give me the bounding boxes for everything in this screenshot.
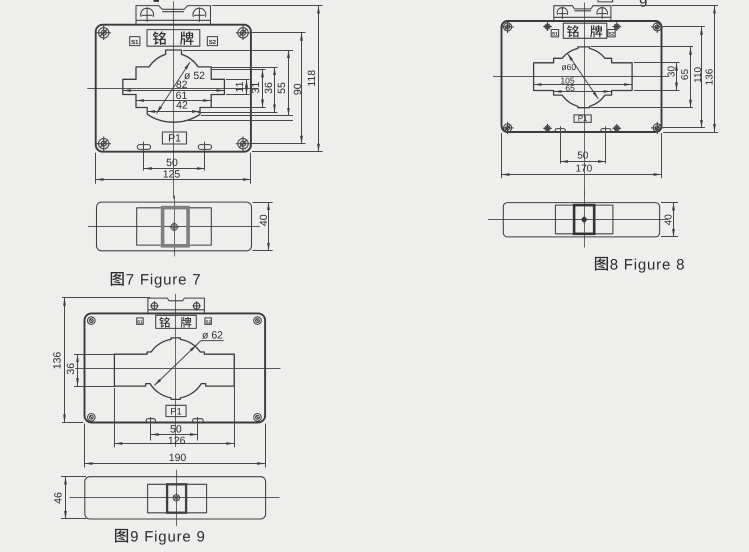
bracket screw left fig9 — [150, 301, 158, 310]
small screw top-right fig8 — [612, 22, 621, 31]
ext 40 bottom fig7 — [253, 250, 273, 252]
side view core fig9 — [167, 484, 186, 512]
side view outer body fig9 — [85, 477, 266, 519]
ext 110 bottom fig8 — [663, 127, 705, 129]
cut-off fragment above figure 8 — [598, 0, 613, 2]
nameplate text pai fig8 — [590, 25, 602, 37]
small screw bottom-left fig8 — [543, 124, 552, 133]
ext 170 left fig8 — [501, 133, 503, 178]
ext 65v bottom fig8 — [591, 107, 694, 109]
svg-text:190: 190 — [169, 452, 187, 464]
ext 136 top fig9 — [62, 297, 150, 299]
busbar window fig9 — [114, 338, 234, 400]
dimension 30 fig8 — [666, 63, 677, 91]
dimension 42 fig7 — [147, 100, 200, 112]
ext 65v top fig8 — [591, 46, 694, 48]
vertical centerline fig7 front — [173, 1, 175, 199]
caption figure 7 — [111, 272, 202, 289]
svg-text:S2: S2 — [209, 39, 217, 46]
svg-text:36: 36 — [263, 82, 275, 94]
ext 36 top fig9 — [74, 354, 116, 356]
caption figure 9 — [115, 528, 206, 545]
svg-text:9 Figure 9: 9 Figure 9 — [130, 528, 206, 545]
mounting bracket fig9 — [148, 298, 205, 313]
side view center screw fig7 — [170, 223, 179, 232]
mounting slot right fig8 — [601, 129, 611, 133]
horizontal centerline fig7 side — [88, 226, 260, 228]
ext 190 left fig9 — [84, 424, 86, 468]
terminal S1 fig9 — [137, 318, 144, 325]
dimension 40 fig7 — [258, 202, 270, 251]
ext from window bottom fig7 — [184, 120, 293, 122]
svg-text:31: 31 — [250, 82, 262, 94]
dimension 170 fig8 — [502, 164, 662, 175]
ext 126 left fig9 — [114, 388, 116, 447]
ext 30 top fig8 — [634, 62, 680, 64]
svg-text:P1: P1 — [168, 133, 181, 145]
bracket screw left fig8 — [557, 7, 567, 19]
nameplate box fig8 — [563, 23, 607, 38]
mounting bracket fig8 — [554, 6, 611, 21]
dimension 190 fig9 — [85, 452, 266, 464]
horizontal centerline fig8 front — [493, 76, 669, 78]
dimension 11 fig7 — [234, 79, 247, 94]
side view bracket fig8 — [555, 205, 613, 234]
corner screw top-right fig9 — [254, 317, 262, 325]
svg-text:S1: S1 — [552, 32, 558, 38]
ext 126 right fig9 — [234, 355, 236, 448]
slot centerline right fig7 — [204, 142, 206, 171]
dimension 36 fig7 — [263, 67, 275, 112]
dimension 61 fig7 — [136, 90, 211, 102]
svg-text:55: 55 — [276, 82, 288, 94]
svg-text:170: 170 — [576, 164, 593, 175]
svg-text:40: 40 — [664, 214, 675, 226]
nameplate text pai fig7 — [180, 31, 193, 45]
svg-text:11: 11 — [234, 81, 246, 92]
ext 55 bottom fig7 — [201, 115, 293, 117]
stepped busbar window fig8 — [534, 47, 633, 108]
dimension 110 fig8 — [693, 27, 704, 128]
svg-text:30: 30 — [666, 66, 677, 78]
dimension 105 fig8 — [534, 76, 633, 86]
dimension 136 fig9 — [52, 298, 65, 423]
dimension 50 fig9 — [151, 424, 198, 436]
corner mounting hole top-left fig8 — [502, 21, 514, 33]
horizontal centerline fig9 side — [70, 497, 280, 499]
horizontal centerline fig8 side — [488, 219, 668, 221]
dimension 125 fig7 — [96, 169, 251, 181]
ext 110 top fig8 — [663, 26, 705, 28]
slot centerline right fig9 — [197, 417, 199, 441]
svg-text:7 Figure 7: 7 Figure 7 — [126, 272, 202, 289]
svg-text:ø60: ø60 — [561, 62, 576, 72]
ext 46 top fig9 — [61, 476, 86, 478]
side view outer body fig7 — [97, 202, 252, 251]
ext 136 bottom fig9 — [62, 422, 83, 424]
side view center screw fig8 — [580, 216, 588, 224]
side view bracket fig7 — [137, 208, 212, 245]
mounting bracket fig7 — [136, 6, 211, 25]
svg-text:65: 65 — [680, 69, 691, 81]
side view outer body fig8 — [503, 203, 659, 237]
ext 136 bottom fig8 — [663, 132, 718, 134]
ext 190 right fig9 — [265, 424, 267, 468]
nameplate text ming fig7 — [153, 31, 166, 44]
bracket screw right fig7 — [193, 7, 206, 22]
svg-text:S2: S2 — [608, 32, 614, 38]
svg-text:P1: P1 — [578, 114, 588, 123]
dimension 55 fig7 — [276, 50, 288, 116]
P1 label fig8 — [574, 114, 591, 123]
ext 30 bottom fig8 — [634, 90, 680, 92]
side view center screw fig9 — [173, 495, 179, 501]
transformer body fig9 — [85, 313, 266, 422]
ext 36 bottom fig9 — [74, 386, 116, 388]
svg-text:90: 90 — [292, 83, 304, 95]
svg-text:ø 52: ø 52 — [184, 70, 205, 82]
dimension 118 fig7 — [306, 6, 318, 152]
terminal S2 fig8 — [608, 30, 615, 38]
ext 11 top fig7 — [226, 79, 250, 81]
ext 40 top fig8 — [661, 202, 678, 204]
svg-text:118: 118 — [306, 70, 318, 87]
svg-text:40: 40 — [258, 214, 270, 226]
dimension 31 fig7 — [250, 69, 262, 107]
ext 40 bottom fig8 — [661, 236, 678, 238]
side view bracket fig9 — [148, 484, 207, 513]
svg-text:S2: S2 — [205, 319, 211, 324]
slot centerline left fig9 — [150, 417, 152, 441]
mounting slot left fig7 — [137, 145, 150, 150]
svg-text:S1: S1 — [131, 39, 139, 46]
ext 118 bottom fig7 — [252, 151, 323, 153]
terminal S2 fig9 — [205, 318, 212, 325]
transformer body fig8 — [502, 21, 662, 132]
nameplate text pai fig9 — [181, 317, 192, 328]
svg-text:110: 110 — [693, 66, 704, 82]
svg-text:P1: P1 — [170, 406, 182, 417]
svg-text:125: 125 — [163, 169, 181, 181]
dimension 65 fig8 — [554, 83, 612, 93]
bracket screw right fig9 — [192, 301, 200, 310]
ext 90 top fig7 — [250, 32, 306, 34]
svg-text:42: 42 — [176, 100, 188, 112]
corner screw top-left fig9 — [88, 317, 96, 325]
svg-text:136: 136 — [52, 352, 64, 370]
svg-text:50: 50 — [577, 151, 589, 162]
corner mounting hole bottom-left fig7 — [97, 137, 111, 151]
transformer body fig7 — [96, 25, 251, 152]
svg-text:126: 126 — [168, 435, 186, 447]
svg-text:36: 36 — [65, 363, 77, 375]
caption figure 8 — [595, 256, 685, 273]
small screw bottom-right fig8 — [612, 124, 621, 133]
diameter 52 leader fig7 — [157, 62, 206, 114]
slot centerline left fig8 — [560, 126, 562, 163]
vertical centerline fig8 side — [584, 190, 586, 248]
svg-text:136: 136 — [705, 68, 716, 85]
corner mounting hole top-right fig8 — [651, 21, 663, 33]
terminal S1 fig8 — [551, 30, 558, 38]
ext 36 bottom fig7 — [198, 112, 278, 114]
svg-text:S1: S1 — [137, 319, 143, 324]
dimension 136 fig8 — [705, 6, 716, 132]
corner screw bottom-left fig9 — [88, 414, 96, 422]
vertical centerline fig9 front — [175, 294, 177, 447]
corner mounting hole top-left fig7 — [97, 26, 111, 40]
svg-text:50: 50 — [170, 424, 182, 436]
P1 label fig7 — [162, 132, 186, 145]
corner mounting hole bottom-right fig8 — [651, 122, 663, 134]
horizontal centerline fig7 front — [87, 88, 258, 90]
nameplate text ming fig8 — [567, 25, 579, 37]
side view core fig8 — [574, 205, 594, 234]
horizontal centerline fig9 front — [75, 368, 281, 370]
svg-text:65: 65 — [565, 83, 575, 93]
mounting slot right fig7 — [198, 145, 211, 150]
ext 170 right fig8 — [661, 133, 663, 178]
ext 31 bottom fig7 — [201, 107, 266, 109]
ext 136 top fig8 — [612, 5, 718, 7]
svg-text:ø 62: ø 62 — [202, 330, 223, 342]
corner mounting hole bottom-left fig8 — [502, 122, 514, 134]
svg-text:46: 46 — [52, 492, 64, 504]
svg-text:g: g — [639, 0, 648, 8]
P1 label fig9 — [166, 405, 186, 417]
ext 40 top fig7 — [253, 202, 273, 204]
ext 55 top fig7 — [183, 50, 293, 52]
vertical centerline fig8 front — [584, 3, 586, 198]
corner mounting hole bottom-right fig7 — [236, 137, 250, 151]
side view core fig7 — [163, 208, 189, 246]
dimension 50 fig7 — [144, 157, 205, 169]
nameplate text ming fig9 — [159, 317, 169, 328]
dimension 65 vertical fig8 — [680, 47, 691, 108]
mounting slot left fig8 — [555, 129, 565, 133]
small screw top-left fig8 — [543, 22, 552, 31]
dimension 50 fig8 — [560, 151, 606, 162]
dimension 46 fig9 — [52, 477, 65, 519]
ext 36 top fig7 — [212, 67, 278, 69]
bracket screw left fig7 — [141, 7, 154, 22]
terminal S1 fig7 — [130, 37, 140, 46]
slot centerline left fig7 — [143, 142, 145, 171]
corner mounting hole top-right fig7 — [236, 26, 250, 40]
ext 125 right fig7 — [250, 153, 252, 184]
vertical centerline fig9 side — [176, 470, 178, 526]
dimension 40 fig8 — [664, 203, 675, 237]
svg-text:8 Figure 8: 8 Figure 8 — [610, 256, 686, 273]
ext 125 left fig7 — [95, 153, 97, 184]
mounting slot left fig9 — [146, 419, 155, 423]
ext 118 top fig7 — [212, 5, 323, 7]
diameter 60 leader fig8 — [561, 53, 598, 99]
ext 31 top fig7 — [212, 69, 266, 71]
dimension 82 fig7 — [123, 79, 225, 91]
stepped busbar window fig7 — [123, 50, 225, 122]
slot centerline right fig8 — [605, 126, 607, 163]
nameplate box fig7 — [147, 30, 200, 47]
mounting slot right fig9 — [193, 419, 204, 423]
terminal S2 fig7 — [207, 37, 217, 46]
cut-off text fragment above figure 7 — [154, 0, 160, 2]
dimension 126 fig9 — [114, 435, 234, 447]
ext 90 bottom fig7 — [250, 143, 306, 145]
dimension 36 fig9 — [65, 354, 78, 386]
bracket screw right fig8 — [597, 7, 607, 19]
ext 11 bottom fig7 — [226, 94, 250, 96]
ext 46 bottom fig9 — [61, 518, 86, 520]
corner screw bottom-right fig9 — [254, 414, 262, 422]
diameter 62 leader fig9 — [154, 330, 223, 386]
svg-text:50: 50 — [166, 157, 178, 169]
nameplate box fig9 — [156, 315, 197, 328]
dimension 90 fig7 — [292, 33, 304, 144]
vertical centerline fig7 side — [174, 196, 176, 257]
